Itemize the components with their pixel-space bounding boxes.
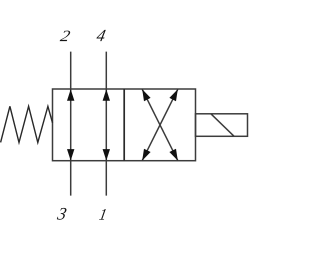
spring (return spring, left) — [1, 106, 53, 142]
flow path arrow line (right square, falling diagonal) — [142, 89, 178, 160]
port label 4 — [96, 30, 106, 41]
port line 2 (top left, through left square to port 3) — [70, 52, 72, 196]
port line 4 (top right, through left square to port 1) — [105, 52, 107, 196]
port label 3 — [57, 208, 67, 220]
port label 2 — [60, 31, 71, 41]
arrowhead top-left of falling cross line — [142, 89, 150, 101]
arrowhead bottom-left of rising cross line — [142, 149, 150, 161]
solenoid box — [196, 114, 248, 137]
arrowhead down, line 4-1 — [103, 149, 110, 161]
valve body (two-position envelope) — [53, 89, 196, 161]
arrowhead down, line 2-3 — [67, 149, 74, 161]
flow path arrow line (right square, rising diagonal) — [142, 89, 178, 160]
arrowhead bottom-right of falling cross line — [169, 149, 177, 161]
port label 1 — [99, 209, 106, 220]
arrowhead top-right of rising cross line — [169, 89, 177, 101]
position divider — [123, 89, 125, 161]
arrowhead up, line 4-1 — [103, 89, 110, 101]
solenoid diagonal — [211, 114, 234, 137]
arrowhead up, line 2-3 — [67, 89, 74, 101]
